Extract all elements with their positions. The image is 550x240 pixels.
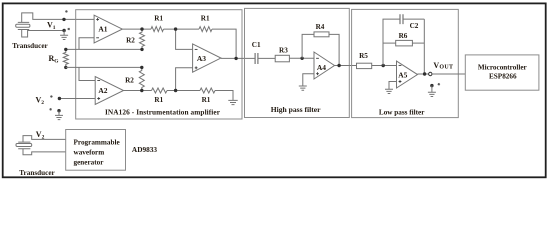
op-amp A4 bbox=[314, 52, 335, 79]
capacitor C1 bbox=[255, 53, 258, 64]
wire A1 feedback row (RG top to R2) bbox=[66, 48, 142, 50]
node R2b top junction bbox=[140, 66, 143, 69]
resistor RG bbox=[63, 49, 68, 67]
svg-text:A5: A5 bbox=[398, 71, 407, 80]
svg-text:waveform: waveform bbox=[74, 149, 105, 157]
ground at A5 bbox=[385, 89, 393, 93]
svg-text:C1: C1 bbox=[252, 41, 261, 49]
svg-text:Microcontroller: Microcontroller bbox=[478, 63, 528, 71]
resistor R1 (A3 ground leg) bbox=[200, 88, 215, 93]
wire transducer bottom lead to V1- bbox=[22, 30, 64, 38]
wire transducer top lead to V1+ bbox=[22, 13, 64, 23]
wire nodeX to A3 inverting input bbox=[176, 29, 193, 49]
svg-text:R4: R4 bbox=[316, 23, 325, 31]
node A5 input junction bbox=[382, 64, 385, 67]
transducer (signal V2) symbol bbox=[18, 142, 30, 149]
wire R3 to A4 bbox=[289, 57, 314, 59]
svg-text:R1: R1 bbox=[154, 15, 163, 23]
svg-text:R5: R5 bbox=[359, 52, 368, 60]
resistor R4 bbox=[314, 32, 329, 37]
wire A5 feedback right riser bbox=[423, 19, 425, 74]
transducer (input V1) symbol bbox=[18, 22, 29, 29]
svg-text:Transducer: Transducer bbox=[12, 42, 48, 50]
svg-text:R6: R6 bbox=[399, 32, 408, 40]
node V2- terminal bbox=[57, 109, 60, 112]
node R2a bottom junction bbox=[140, 48, 143, 51]
block box programmable waveform generator bbox=[66, 130, 126, 171]
svg-text:R1: R1 bbox=[202, 96, 211, 104]
wire A3 feedback top bbox=[212, 29, 236, 58]
node A4 output junction bbox=[337, 64, 340, 67]
svg-text:R3: R3 bbox=[279, 46, 288, 54]
wire to INA ground bbox=[215, 91, 233, 101]
svg-text:ESP8266: ESP8266 bbox=[489, 72, 517, 80]
svg-text:A4: A4 bbox=[317, 63, 326, 72]
ground at V1- bbox=[63, 31, 65, 36]
resistor R2 (A2 feedback) bbox=[139, 67, 144, 90]
svg-text:OUT: OUT bbox=[439, 65, 453, 71]
op-amp A5 bbox=[397, 61, 418, 88]
wire A1 output bbox=[122, 28, 151, 30]
wire V2 to A2 noninverting input bbox=[59, 98, 95, 100]
svg-text:2: 2 bbox=[42, 134, 45, 140]
node Y junction bbox=[174, 89, 177, 92]
wire C1 to R3 bbox=[258, 57, 275, 59]
node A4 input junction bbox=[300, 57, 303, 60]
wire A4 feedback left riser bbox=[302, 34, 314, 58]
node VOUT terminal (open) bbox=[429, 72, 432, 75]
op-amp A2 bbox=[95, 77, 123, 105]
resistor R6 bbox=[396, 40, 413, 46]
wire R5 to A5 bbox=[372, 65, 397, 67]
node A3 output junction bbox=[234, 57, 237, 60]
wire nodeY to A3 noninverting input bbox=[176, 68, 193, 91]
capacitor C2 bbox=[400, 14, 403, 24]
svg-text:R1: R1 bbox=[201, 15, 210, 23]
wire nodeX row bbox=[164, 28, 200, 30]
svg-text:A3: A3 bbox=[197, 54, 206, 63]
ground at VOUT- bbox=[431, 86, 433, 93]
svg-text:2: 2 bbox=[41, 100, 44, 106]
wire transducer2 bottom lead bbox=[23, 149, 66, 155]
wire A3 output to C1 bbox=[221, 57, 255, 59]
node RG bottom bbox=[64, 66, 67, 69]
node RG top bbox=[64, 48, 67, 51]
node V1- terminal bbox=[62, 29, 65, 32]
svg-text:Transducer: Transducer bbox=[19, 169, 55, 177]
block box INA126 bbox=[76, 10, 242, 119]
wire C2 to right riser bbox=[403, 18, 424, 20]
block box low pass filter bbox=[352, 9, 459, 117]
svg-text:A1: A1 bbox=[98, 25, 107, 34]
wire A5 output bbox=[418, 73, 429, 75]
svg-text:G: G bbox=[54, 59, 59, 65]
block box microcontroller bbox=[465, 55, 539, 90]
wire A4 feedback right riser bbox=[329, 34, 339, 65]
op-amp A3 bbox=[193, 44, 221, 72]
ground at A4 bbox=[299, 86, 307, 90]
node A5 output junction bbox=[423, 72, 426, 75]
wire R6 to right riser bbox=[412, 42, 424, 44]
node V1+ terminal bbox=[62, 18, 65, 21]
border frame bbox=[3, 3, 546, 177]
wire nodeY row bbox=[167, 90, 200, 92]
wire A4 noninverting to ground bbox=[303, 74, 314, 86]
wire A5 noninverting to ground bbox=[389, 82, 397, 90]
block box high pass filter bbox=[245, 8, 350, 117]
resistor R2 (A1 feedback) bbox=[140, 29, 145, 49]
svg-text:R2: R2 bbox=[126, 37, 135, 45]
svg-text:C2: C2 bbox=[410, 22, 419, 30]
op-amp A1 bbox=[94, 15, 122, 43]
svg-text:A2: A2 bbox=[98, 86, 107, 95]
ground at V2- bbox=[58, 111, 60, 116]
wire A2 feedback row (RG bottom to R2) bbox=[66, 66, 142, 68]
svg-text:R2: R2 bbox=[125, 77, 134, 85]
node X junction bbox=[174, 27, 177, 30]
node V2+ terminal bbox=[58, 97, 61, 100]
svg-text:AD9833: AD9833 bbox=[132, 145, 157, 154]
wire A5 feedback left riser bbox=[383, 19, 400, 65]
svg-text:High pass filter: High pass filter bbox=[271, 105, 321, 114]
svg-text:generator: generator bbox=[74, 158, 105, 166]
wire A2 inverting input bbox=[79, 67, 95, 80]
svg-text:Low pass filter: Low pass filter bbox=[379, 108, 425, 116]
wire VOUT to microcontroller bbox=[432, 73, 465, 75]
resistor R1 (A2 to A3) bbox=[152, 88, 168, 93]
node A1 output junction bbox=[140, 27, 143, 30]
resistor R1 (A3 top feedback) bbox=[199, 27, 212, 32]
node VOUT- terminal bbox=[430, 84, 433, 87]
ground INA reference bbox=[228, 100, 237, 104]
resistor R5 bbox=[357, 63, 372, 68]
wire A4 output to R5 bbox=[335, 65, 357, 67]
resistor R1 (A1 to A3) bbox=[151, 27, 164, 32]
wire A2 output bbox=[124, 90, 152, 92]
wire R6 row bbox=[383, 42, 396, 44]
wire transducer2 top lead bbox=[23, 136, 66, 143]
node A2 output junction bbox=[140, 89, 143, 92]
svg-text:INA126 - Instrumentation ampli: INA126 - Instrumentation amplifier bbox=[105, 107, 221, 116]
resistor R3 bbox=[275, 55, 289, 62]
wire V1+ to A1 noninverting input bbox=[64, 18, 94, 20]
wire A1 inverting input bbox=[79, 38, 94, 50]
svg-text:Programmable: Programmable bbox=[74, 138, 120, 146]
svg-text:R1: R1 bbox=[154, 96, 163, 104]
svg-text:1: 1 bbox=[53, 25, 56, 31]
